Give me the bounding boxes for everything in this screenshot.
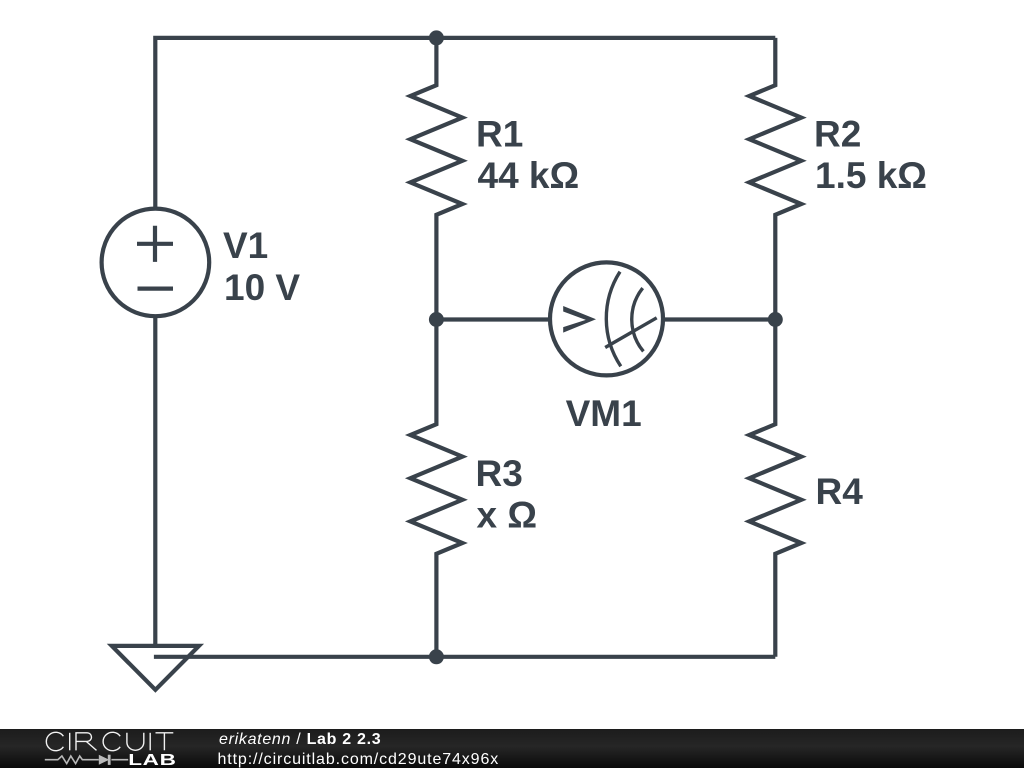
svg-text:LAB: LAB — [128, 751, 176, 768]
svg-text:erikatenn / Lab 2 2.3: erikatenn / Lab 2 2.3 — [219, 731, 381, 748]
svg-text:x Ω: x Ω — [477, 495, 538, 536]
svg-text:10 V: 10 V — [224, 267, 300, 308]
svg-text:http://circuitlab.com/cd29ute7: http://circuitlab.com/cd29ute74x96x — [218, 751, 500, 768]
svg-text:1.5 kΩ: 1.5 kΩ — [815, 155, 927, 196]
svg-text:R4: R4 — [816, 471, 864, 512]
svg-text:R1: R1 — [476, 113, 523, 154]
svg-text:44 kΩ: 44 kΩ — [478, 155, 580, 196]
svg-text:V1: V1 — [223, 225, 268, 266]
svg-text:VM1: VM1 — [566, 393, 642, 434]
svg-text:R2: R2 — [814, 113, 861, 154]
svg-text:R3: R3 — [476, 453, 523, 494]
